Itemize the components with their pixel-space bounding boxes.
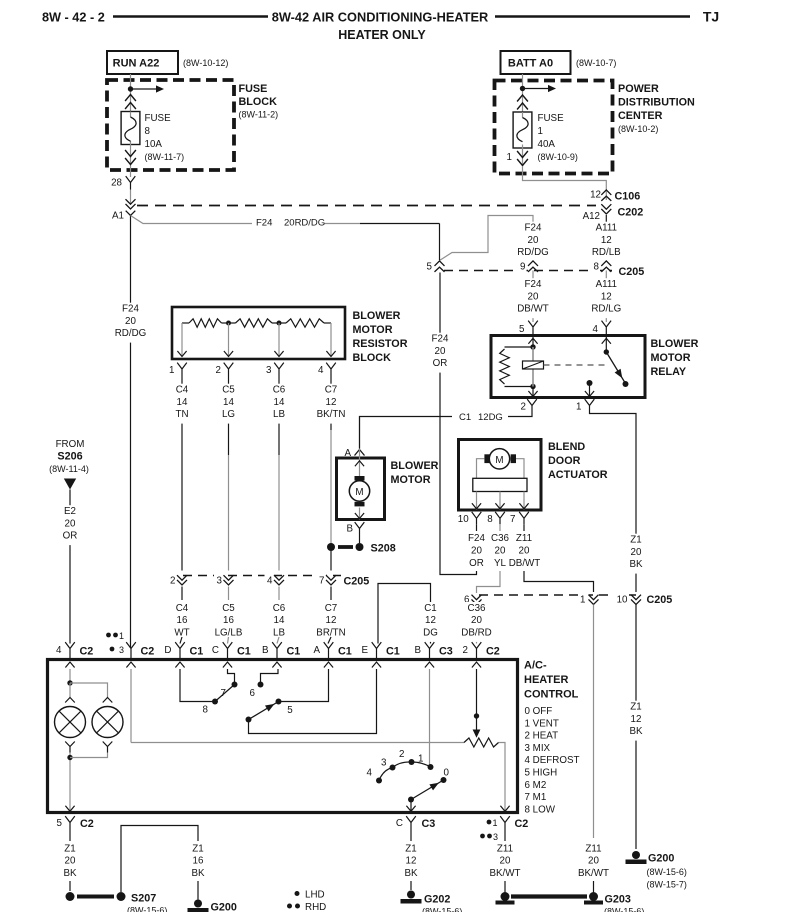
svg-text:BLOWER: BLOWER — [651, 338, 699, 350]
svg-text:12: 12 — [601, 291, 612, 302]
svg-text:G203: G203 — [605, 894, 631, 906]
svg-text:BLOWER: BLOWER — [353, 310, 401, 322]
svg-text:MOTOR: MOTOR — [353, 324, 393, 336]
svg-text:C2: C2 — [141, 646, 155, 658]
svg-text:28: 28 — [111, 178, 122, 189]
svg-text:RHD: RHD — [305, 902, 326, 912]
svg-text:C36: C36 — [468, 603, 487, 614]
svg-text:4: 4 — [593, 324, 599, 335]
svg-text:4: 4 — [367, 768, 373, 779]
svg-text:E: E — [361, 645, 368, 656]
svg-text:5 HIGH: 5 HIGH — [525, 768, 558, 779]
svg-text:(8W-15-7): (8W-15-7) — [647, 880, 687, 890]
svg-text:C3: C3 — [422, 818, 436, 830]
svg-text:16: 16 — [177, 615, 188, 626]
svg-text:3: 3 — [119, 645, 124, 655]
svg-text:8: 8 — [487, 514, 493, 525]
svg-text:C4: C4 — [176, 603, 189, 614]
svg-text:1: 1 — [119, 631, 124, 641]
svg-text:12DG: 12DG — [478, 412, 503, 423]
svg-text:BK/WT: BK/WT — [489, 868, 520, 879]
svg-text:FUSE: FUSE — [145, 113, 172, 124]
svg-text:C205: C205 — [344, 576, 370, 588]
svg-text:5: 5 — [427, 262, 433, 273]
svg-text:CONTROL: CONTROL — [524, 689, 579, 701]
svg-text:RD/LB: RD/LB — [592, 247, 621, 258]
svg-text:(8W-10-9): (8W-10-9) — [538, 152, 578, 162]
svg-text:3 MIX: 3 MIX — [525, 743, 551, 754]
svg-text:RESISTOR: RESISTOR — [353, 338, 408, 350]
svg-text:BLOWER: BLOWER — [391, 460, 439, 472]
svg-text:WT: WT — [174, 627, 189, 638]
svg-text:20: 20 — [65, 856, 76, 867]
svg-text:C1: C1 — [459, 412, 471, 423]
svg-text:1: 1 — [507, 152, 512, 163]
svg-text:DB/WT: DB/WT — [517, 304, 549, 315]
svg-text:C205: C205 — [647, 594, 673, 606]
svg-text:LB: LB — [273, 627, 285, 638]
svg-text:OR: OR — [433, 358, 448, 369]
svg-text:DB/RD: DB/RD — [461, 627, 491, 638]
svg-text:DISTRIBUTION: DISTRIBUTION — [618, 97, 695, 109]
svg-text:(8W-10-2): (8W-10-2) — [618, 124, 658, 134]
svg-text:F24: F24 — [432, 334, 449, 345]
svg-text:2: 2 — [216, 365, 221, 376]
svg-text:20: 20 — [528, 235, 539, 246]
svg-text:8: 8 — [203, 705, 209, 716]
svg-text:8: 8 — [594, 262, 600, 273]
svg-text:POWER: POWER — [618, 83, 659, 95]
svg-text:RD/LG: RD/LG — [591, 304, 621, 315]
svg-text:BK: BK — [629, 726, 643, 737]
svg-text:1: 1 — [169, 365, 174, 376]
svg-text:HEATER ONLY: HEATER ONLY — [338, 28, 426, 42]
svg-text:DOOR: DOOR — [548, 455, 581, 467]
svg-text:C7: C7 — [325, 603, 338, 614]
svg-text:B: B — [262, 645, 269, 656]
svg-text:OR: OR — [63, 531, 78, 542]
svg-text:2: 2 — [399, 749, 404, 760]
svg-text:8: 8 — [145, 126, 151, 137]
svg-text:Z1: Z1 — [64, 843, 75, 854]
svg-text:7 M1: 7 M1 — [525, 792, 547, 803]
svg-text:A12: A12 — [583, 211, 600, 222]
svg-text:C1: C1 — [237, 646, 251, 658]
svg-text:20RD/DG: 20RD/DG — [284, 218, 325, 229]
svg-text:(8W-15-6): (8W-15-6) — [647, 867, 687, 877]
svg-text:BK: BK — [63, 868, 77, 879]
svg-text:12: 12 — [326, 397, 337, 408]
svg-text:C4: C4 — [176, 385, 189, 396]
svg-text:YL: YL — [494, 558, 507, 569]
svg-text:C5: C5 — [222, 603, 235, 614]
svg-text:16: 16 — [223, 615, 234, 626]
svg-text:C1: C1 — [424, 603, 437, 614]
svg-text:(8W-11-7): (8W-11-7) — [145, 152, 185, 162]
svg-text:RELAY: RELAY — [651, 366, 687, 378]
svg-text:BLOCK: BLOCK — [239, 96, 278, 108]
svg-text:0 OFF: 0 OFF — [525, 706, 553, 717]
svg-text:16: 16 — [193, 856, 204, 867]
svg-text:12: 12 — [631, 714, 642, 725]
svg-text:F24: F24 — [468, 533, 485, 544]
svg-text:C2: C2 — [80, 646, 94, 658]
svg-text:4 DEFROST: 4 DEFROST — [525, 755, 580, 766]
svg-text:10: 10 — [458, 514, 469, 525]
svg-text:4: 4 — [56, 645, 62, 656]
svg-text:A111: A111 — [596, 279, 617, 290]
svg-text:F24: F24 — [525, 223, 542, 234]
svg-text:1: 1 — [580, 595, 585, 606]
svg-text:12: 12 — [326, 615, 337, 626]
svg-text:Z1: Z1 — [630, 702, 641, 713]
svg-text:20: 20 — [471, 615, 482, 626]
svg-text:C2: C2 — [80, 818, 94, 830]
svg-text:2: 2 — [463, 645, 468, 656]
svg-text:LHD: LHD — [305, 890, 325, 901]
svg-text:(8W-11-4): (8W-11-4) — [49, 464, 89, 474]
svg-text:3: 3 — [266, 365, 272, 376]
svg-text:DG: DG — [423, 627, 438, 638]
svg-text:TJ: TJ — [703, 9, 719, 25]
svg-text:BR/TN: BR/TN — [316, 627, 345, 638]
svg-text:5: 5 — [287, 705, 293, 716]
svg-text:S206: S206 — [57, 451, 82, 463]
svg-text:7: 7 — [510, 514, 515, 525]
svg-text:1: 1 — [418, 754, 423, 765]
svg-text:F24: F24 — [256, 218, 272, 229]
svg-text:1 VENT: 1 VENT — [525, 718, 559, 729]
svg-text:1: 1 — [538, 126, 543, 137]
svg-text:7: 7 — [319, 576, 324, 587]
svg-text:HEATER: HEATER — [524, 674, 568, 686]
svg-text:Z1: Z1 — [405, 843, 416, 854]
svg-text:3: 3 — [381, 758, 387, 769]
svg-text:(8W-11-2): (8W-11-2) — [239, 110, 279, 120]
svg-text:Z11: Z11 — [516, 533, 532, 544]
svg-text:6: 6 — [250, 688, 256, 699]
svg-text:(8W-15-6): (8W-15-6) — [604, 907, 644, 912]
svg-text:C1: C1 — [287, 646, 301, 658]
svg-text:12: 12 — [590, 190, 601, 201]
svg-text:8W-42 AIR CONDITIONING-HEATER: 8W-42 AIR CONDITIONING-HEATER — [272, 10, 489, 25]
svg-text:F24: F24 — [122, 304, 139, 315]
svg-text:C6: C6 — [273, 385, 286, 396]
svg-text:BK: BK — [629, 559, 643, 570]
svg-text:E2: E2 — [64, 506, 76, 517]
svg-text:G200: G200 — [648, 853, 674, 865]
svg-text:7: 7 — [221, 688, 226, 699]
svg-text:MOTOR: MOTOR — [391, 474, 431, 486]
svg-text:20: 20 — [471, 546, 482, 557]
svg-text:MOTOR: MOTOR — [651, 352, 691, 364]
svg-text:ACTUATOR: ACTUATOR — [548, 469, 608, 481]
svg-text:2: 2 — [170, 576, 175, 587]
svg-text:1: 1 — [576, 402, 581, 413]
svg-text:A1: A1 — [112, 211, 124, 222]
svg-text:10: 10 — [617, 595, 628, 606]
svg-text:(8W-15-6): (8W-15-6) — [127, 906, 167, 912]
svg-text:20: 20 — [588, 856, 599, 867]
svg-text:3: 3 — [217, 576, 223, 587]
svg-text:F24: F24 — [525, 279, 542, 290]
svg-text:OR: OR — [469, 558, 484, 569]
svg-text:RD/DG: RD/DG — [115, 328, 147, 339]
svg-text:6 M2: 6 M2 — [525, 780, 547, 791]
svg-text:RUN A22: RUN A22 — [113, 58, 160, 70]
svg-text:FROM: FROM — [56, 439, 85, 450]
svg-text:A/C-: A/C- — [524, 660, 547, 672]
svg-text:20: 20 — [65, 518, 76, 529]
svg-text:LG/LB: LG/LB — [215, 627, 243, 638]
svg-text:Z1: Z1 — [192, 843, 203, 854]
svg-text:(8W-10-7): (8W-10-7) — [576, 58, 616, 68]
svg-text:40A: 40A — [538, 139, 556, 150]
svg-text:(8W-15-6): (8W-15-6) — [422, 907, 462, 912]
svg-text:Z1: Z1 — [630, 535, 641, 546]
svg-text:5: 5 — [519, 324, 525, 335]
svg-text:BLEND: BLEND — [548, 441, 585, 453]
svg-text:D: D — [164, 645, 171, 656]
svg-text:C106: C106 — [615, 191, 641, 203]
svg-text:C3: C3 — [439, 646, 453, 658]
svg-text:A111: A111 — [596, 223, 617, 234]
svg-text:C205: C205 — [619, 266, 645, 278]
svg-text:S208: S208 — [371, 543, 396, 555]
svg-text:C2: C2 — [486, 646, 500, 658]
svg-text:Z11: Z11 — [585, 843, 601, 854]
svg-text:2: 2 — [521, 402, 526, 413]
svg-text:8 LOW: 8 LOW — [525, 804, 556, 815]
svg-text:C1: C1 — [190, 646, 204, 658]
svg-text:RD/DG: RD/DG — [517, 247, 549, 258]
svg-text:S207: S207 — [131, 893, 156, 905]
svg-text:BK/WT: BK/WT — [578, 868, 609, 879]
svg-text:C6: C6 — [273, 603, 286, 614]
svg-text:8W - 42 - 2: 8W - 42 - 2 — [42, 11, 105, 25]
svg-text:1: 1 — [493, 818, 498, 828]
svg-text:C5: C5 — [222, 385, 235, 396]
svg-text:G200: G200 — [211, 902, 237, 912]
svg-text:3: 3 — [493, 832, 498, 842]
svg-text:(8W-10-12): (8W-10-12) — [183, 58, 228, 68]
svg-text:20: 20 — [519, 546, 530, 557]
svg-text:4: 4 — [318, 365, 324, 376]
svg-text:BK: BK — [404, 868, 418, 879]
svg-text:CENTER: CENTER — [618, 110, 663, 122]
svg-text:9: 9 — [520, 262, 525, 273]
svg-text:C2: C2 — [515, 818, 529, 830]
svg-text:LB: LB — [273, 409, 285, 420]
svg-text:0: 0 — [444, 768, 450, 779]
svg-text:FUSE: FUSE — [538, 113, 565, 124]
svg-text:M: M — [495, 455, 503, 466]
svg-text:14: 14 — [177, 397, 188, 408]
svg-text:M: M — [355, 487, 363, 498]
svg-text:20: 20 — [631, 547, 642, 558]
svg-text:BATT A0: BATT A0 — [508, 58, 553, 70]
svg-text:10A: 10A — [145, 139, 163, 150]
svg-text:B: B — [414, 645, 421, 656]
svg-text:20: 20 — [435, 346, 446, 357]
svg-text:BK/TN: BK/TN — [317, 409, 346, 420]
svg-text:A: A — [313, 645, 320, 656]
svg-text:14: 14 — [223, 397, 234, 408]
svg-text:BLOCK: BLOCK — [353, 352, 392, 364]
svg-text:12: 12 — [425, 615, 436, 626]
svg-text:20: 20 — [500, 856, 511, 867]
svg-text:LG: LG — [222, 409, 235, 420]
svg-text:5: 5 — [57, 818, 63, 829]
svg-text:C: C — [212, 645, 219, 656]
svg-text:TN: TN — [175, 409, 188, 420]
svg-text:C202: C202 — [618, 207, 644, 219]
svg-text:Z11: Z11 — [497, 843, 513, 854]
svg-text:FUSE: FUSE — [239, 83, 268, 95]
svg-text:C1: C1 — [386, 646, 400, 658]
svg-text:12: 12 — [601, 235, 612, 246]
svg-text:C: C — [396, 818, 403, 829]
svg-text:DB/WT: DB/WT — [509, 558, 541, 569]
svg-text:G202: G202 — [424, 894, 450, 906]
svg-text:C36: C36 — [491, 533, 510, 544]
svg-text:BK: BK — [191, 868, 205, 879]
svg-text:B: B — [346, 524, 353, 535]
svg-text:14: 14 — [274, 615, 285, 626]
svg-text:4: 4 — [267, 576, 273, 587]
svg-text:C1: C1 — [338, 646, 352, 658]
svg-text:14: 14 — [274, 397, 285, 408]
svg-text:12: 12 — [406, 856, 417, 867]
svg-text:20: 20 — [528, 291, 539, 302]
svg-text:C7: C7 — [325, 385, 338, 396]
svg-text:20: 20 — [125, 316, 136, 327]
svg-text:2 HEAT: 2 HEAT — [525, 731, 559, 742]
svg-text:20: 20 — [495, 546, 506, 557]
